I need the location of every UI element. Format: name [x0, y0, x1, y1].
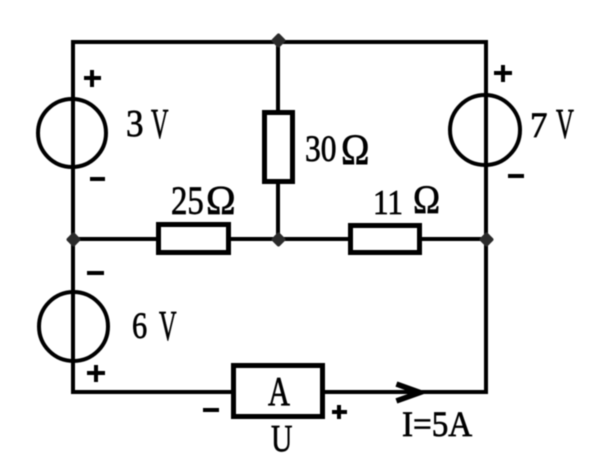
label I=5A	[402, 406, 472, 442]
label A inside ammeter	[268, 371, 290, 412]
label 30ohm	[305, 131, 336, 168]
resistor 11ohm	[348, 223, 422, 255]
label 11ohm	[373, 185, 403, 220]
wire bottom horizontal	[71, 390, 488, 395]
label 7 V	[530, 107, 547, 143]
plus sign of 7V	[494, 71, 512, 75]
plus sign of 6V	[87, 371, 105, 375]
resistor 25ohm	[156, 222, 231, 255]
current arrow I=5A	[390, 375, 435, 410]
node dot middle center	[271, 232, 287, 248]
label 6 V	[132, 308, 147, 346]
ammeter A box	[231, 363, 325, 419]
voltage source 7V	[448, 93, 522, 167]
wire middle horizontal	[71, 237, 488, 242]
minus sign of 6V	[87, 271, 104, 275]
minus sign left of ammeter	[203, 408, 219, 412]
voltage source 6V	[37, 290, 110, 363]
label 25ohm	[171, 181, 204, 221]
wire top horizontal	[71, 40, 488, 45]
minus sign of 7V	[508, 174, 524, 178]
plus sign right of ammeter	[332, 410, 347, 414]
minus sign of 3V	[90, 177, 105, 181]
label 3 V	[126, 105, 144, 144]
resistor 30ohm	[262, 110, 295, 184]
label U below ammeter	[271, 420, 292, 459]
plus sign of 3V	[84, 76, 101, 80]
wire right vertical	[484, 40, 489, 395]
wire middle vertical	[276, 42, 281, 241]
voltage source 3V	[36, 97, 108, 169]
node dot top middle	[271, 32, 287, 48]
node dot middle left	[65, 232, 81, 248]
wire left vertical	[71, 40, 76, 395]
node dot middle right	[479, 232, 495, 248]
